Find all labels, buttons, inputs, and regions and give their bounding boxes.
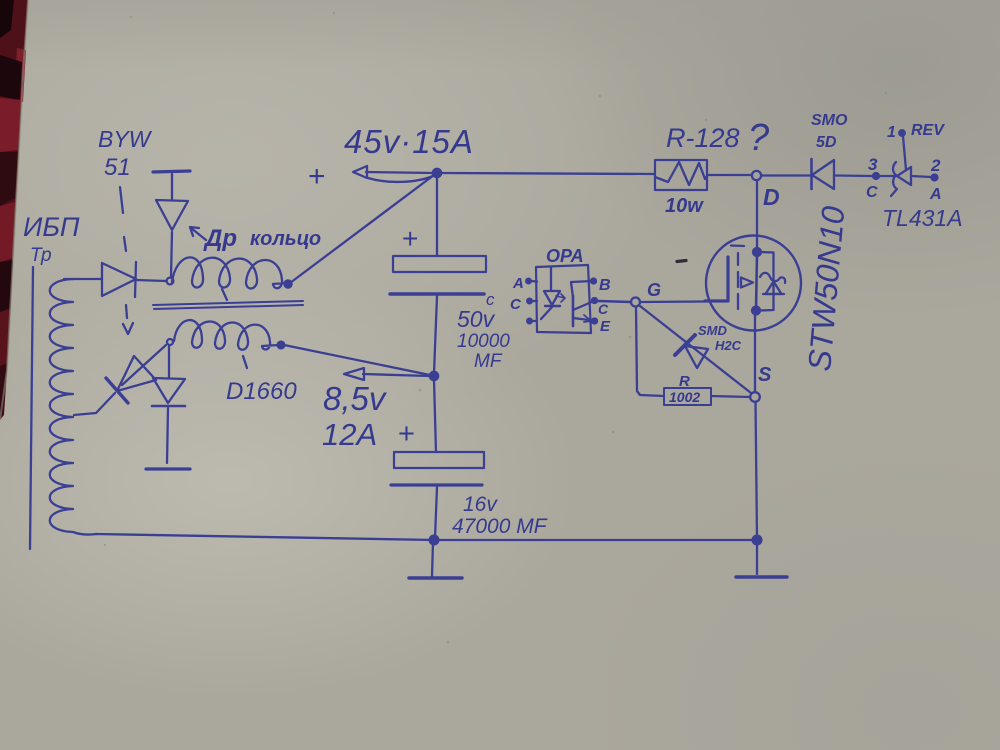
svg-text:ИБП: ИБП	[23, 212, 80, 242]
wire resistor to node D	[707, 174, 751, 176]
optocoupler OPA box	[536, 265, 591, 333]
ground bar left	[409, 576, 462, 579]
wire OPA to node G	[598, 301, 631, 302]
svg-text:1: 1	[887, 124, 896, 141]
diode SMD 5D	[810, 159, 813, 189]
node bottom right junction (dot)	[753, 536, 762, 545]
svg-text:2: 2	[930, 156, 941, 175]
svg-text:B: B	[599, 277, 611, 294]
top rail to resistor	[441, 173, 654, 174]
bottom rail right	[438, 539, 757, 541]
diode BYW51 (vertical, to top bar)	[171, 232, 172, 277]
black pen dash	[677, 261, 686, 262]
node: coil right end dot	[284, 280, 291, 287]
OPA LED arrow	[556, 294, 565, 302]
resistor R 1002 wiring	[636, 307, 664, 396]
capacitor C2 bottom plate	[391, 483, 482, 486]
dashed pointer to D1660	[222, 289, 227, 300]
MOSFET Q1 STW50N10 body circle	[706, 236, 801, 331]
svg-text:A: A	[512, 275, 524, 292]
node S (open circle)	[750, 392, 760, 402]
svg-text:SMD: SMD	[698, 323, 728, 338]
svg-text:+: +	[308, 160, 326, 193]
source node dot	[752, 307, 760, 315]
svg-text:H2C: H2C	[715, 338, 742, 353]
diode BYW51 (horizontal)	[102, 263, 136, 296]
svg-text:G: G	[647, 280, 661, 300]
wire lower coil to junction	[284, 345, 430, 375]
capacitor C2 16v 47000MF top plate	[394, 452, 484, 468]
svg-text:C: C	[866, 184, 878, 201]
svg-text:3: 3	[868, 155, 878, 174]
paper edge shading	[0, 0, 28, 420]
svg-text:R-128: R-128	[666, 123, 740, 153]
wire C2 to bottom rail	[435, 487, 437, 538]
center channel line	[756, 254, 757, 310]
wire node G to gate	[640, 300, 705, 303]
TL431 ref pin wire	[899, 130, 905, 136]
left rail	[30, 267, 33, 549]
red/black fabric along left paper edge	[0, 0, 28, 420]
svg-text:Др: Др	[203, 225, 237, 252]
wire S down to rail	[756, 402, 758, 538]
wire junction down to C2	[434, 380, 436, 452]
svg-text:45v·15A: 45v·15A	[344, 123, 474, 160]
svg-text:R: R	[679, 373, 690, 390]
faint paper specks	[104, 12, 887, 644]
resistor R-128 zigzag	[655, 162, 707, 185]
wire node D to diode SMD 5D	[761, 174, 810, 176]
wire C1 to junction	[434, 296, 437, 373]
drain node dot	[753, 248, 761, 256]
inductor Др кольцо (upper winding)	[172, 257, 286, 288]
arrow pointer to Др кольцо	[191, 228, 206, 240]
svg-text:+: +	[398, 418, 415, 450]
wire coil to +45v junction (diagonal)	[290, 175, 434, 283]
node bottom junction (dot)	[430, 536, 439, 545]
svg-text:A: A	[929, 186, 942, 203]
secondary winding (lower)	[174, 320, 279, 350]
diode BYW51b (diagonal)	[122, 345, 166, 385]
node: lower coil right dot	[278, 342, 285, 349]
svg-text:S: S	[758, 364, 772, 386]
svg-text:?: ?	[748, 117, 770, 159]
arrow 45v output	[353, 166, 367, 178]
wire node D down to MOSFET drain	[756, 180, 758, 249]
body zener bar	[760, 273, 785, 283]
ground bar right	[736, 575, 787, 578]
ferrite core bars	[153, 301, 303, 305]
body diode branch	[760, 252, 774, 311]
diode D1660 (vertical)	[168, 346, 170, 377]
ground stub left	[432, 542, 433, 576]
svg-text:10w: 10w	[665, 195, 704, 217]
svg-text:C: C	[510, 296, 522, 313]
svg-text:47000 MF: 47000 MF	[452, 515, 548, 538]
svg-text:8,5v: 8,5v	[323, 380, 388, 417]
svg-text:10000: 10000	[457, 331, 510, 352]
transformer primary winding Tp	[50, 279, 97, 535]
node: coil left junction (open circle)	[167, 278, 174, 285]
capacitor C1 bottom plate	[390, 292, 484, 295]
svg-text:E: E	[600, 318, 611, 335]
bottom rail left	[95, 534, 434, 540]
svg-text:BYW: BYW	[98, 126, 153, 152]
node junction 45v (dot)	[433, 169, 441, 177]
node pin2 A (dot)	[932, 175, 938, 181]
svg-text:D1660: D1660	[226, 378, 297, 405]
ground stub right	[756, 542, 758, 574]
wire junction down to C1	[436, 177, 438, 256]
svg-text:TL431A: TL431A	[882, 205, 963, 231]
TL431A symbol	[891, 162, 897, 196]
capacitor C1 50v 10000MF top plate	[393, 256, 486, 272]
svg-text:C: C	[598, 301, 609, 317]
substrate arrow	[741, 278, 753, 288]
channel dashes	[737, 253, 739, 265]
dashed pointer from BYW label	[120, 187, 123, 213]
svg-text:кольцо: кольцо	[250, 228, 321, 250]
node D (open circle)	[752, 171, 761, 180]
arrow 8.5v output	[344, 368, 364, 380]
node G (open circle)	[631, 298, 640, 307]
arrowhead down	[123, 323, 133, 334]
svg-text:16v: 16v	[463, 493, 498, 516]
body diode triangle	[766, 282, 782, 295]
svg-text:12A: 12A	[322, 417, 377, 452]
svg-text:50v: 50v	[457, 306, 496, 332]
wire source to S node	[754, 314, 756, 392]
svg-text:5D: 5D	[816, 134, 837, 151]
wire winding to diode BYW51	[64, 278, 102, 280]
node: lower coil left (open circle)	[167, 339, 173, 345]
svg-text:51: 51	[104, 154, 131, 181]
OPA pins	[526, 279, 531, 284]
gate electrode	[705, 257, 728, 301]
svg-text:+: +	[402, 223, 418, 254]
resistor R-128 box	[655, 160, 707, 190]
resistor R 1002 box	[664, 388, 711, 405]
OPA internal LED	[550, 267, 552, 291]
svg-text:1002: 1002	[669, 389, 700, 405]
svg-text:SMO: SMO	[811, 112, 848, 129]
diode SMD H2C (diagonal G to S)	[640, 306, 751, 393]
svg-text:D: D	[763, 184, 780, 210]
node junction 8.5v (dot)	[430, 372, 438, 380]
svg-text:Тр: Тр	[30, 245, 52, 266]
OPA phototransistor	[572, 296, 575, 326]
svg-text:OPA: OPA	[546, 246, 584, 266]
svg-text:REV: REV	[911, 122, 945, 139]
svg-text:MF: MF	[474, 351, 503, 372]
node pin3 C (dot)	[873, 173, 879, 179]
